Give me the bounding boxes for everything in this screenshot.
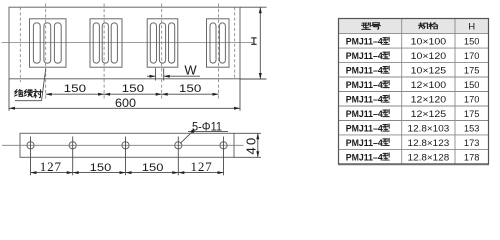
insulation liner dashed line left [19,7,21,82]
svg-text:12×100: 12×100 [411,80,447,90]
dimension 600 [9,79,240,111]
body rectangle 600x H [9,7,240,79]
svg-text:173: 173 [464,138,480,148]
slot group 4 slots [210,23,216,63]
bar rectangle [20,133,234,157]
slot group 4 outer [207,19,230,67]
table header text [362,23,438,30]
svg-text:600: 600 [115,98,136,110]
slot group 3 outer [147,19,178,67]
hole 3 [122,142,129,149]
svg-text:170: 170 [464,51,480,61]
bar centerline [2,144,244,146]
svg-text:PMJ11–4: PMJ11–4 [346,109,383,119]
header label 型号 [362,23,371,30]
svg-text:PMJ11–4: PMJ11–4 [346,124,383,134]
hole 2 [69,142,76,149]
slot group 1 outer [30,19,67,67]
svg-text:175: 175 [464,66,480,76]
svg-text:127: 127 [190,159,212,174]
header label 规格 [419,23,428,29]
svg-text:PMJ11–4: PMJ11–4 [346,80,383,90]
svg-text:150: 150 [464,37,480,47]
dimension 150x3 (top view) [46,93,219,95]
dimension H [240,7,267,79]
svg-text:150: 150 [122,83,144,95]
svg-text:H: H [468,22,475,33]
svg-text:150: 150 [90,162,112,174]
label 绝缘衬 (insulating liner) [15,89,43,97]
svg-text:10×120: 10×120 [411,51,447,61]
hole 5 [220,142,227,149]
hole 4 [175,142,182,149]
table outer border [339,19,489,164]
svg-text:10×100: 10×100 [411,37,447,47]
slot group centerlines (dashed) [46,4,219,100]
svg-text:40: 40 [244,136,259,155]
svg-text:PMJ11–4: PMJ11–4 [346,51,383,61]
table bottom border emphasis [338,164,489,166]
svg-text:10×125: 10×125 [411,66,447,76]
svg-text:150: 150 [142,162,164,174]
dimension W [147,68,200,80]
svg-text:12×120: 12×120 [411,95,447,105]
svg-text:178: 178 [464,152,480,162]
hole 1 [27,142,34,149]
dimensions 127/150/150/127 (bottom view) [31,137,224,176]
table grid [339,19,489,164]
svg-text:PMJ11–4: PMJ11–4 [346,66,383,76]
slot group 2 outer [90,19,122,67]
svg-text:PMJ11–4: PMJ11–4 [346,95,383,105]
svg-text:W: W [184,63,197,78]
svg-text:150: 150 [179,83,201,95]
slot group 1 slots [33,23,40,63]
svg-text:12×125: 12×125 [411,109,447,119]
型 glyphs appended to model names [383,37,390,160]
horizontal centerline [2,41,254,43]
svg-text:175: 175 [464,109,480,119]
svg-text:12.8×123: 12.8×123 [408,138,450,148]
slot group 2 slots [93,23,99,63]
svg-text:PMJ11–4: PMJ11–4 [346,138,383,148]
leader line for 绝缘衬 (underline + leader) [15,69,46,101]
svg-text:150: 150 [464,80,480,90]
svg-text:127: 127 [40,159,62,174]
dimension 40 [234,133,261,157]
svg-text:12.8×103: 12.8×103 [408,124,450,134]
table body text [346,37,480,163]
svg-text:PMJ11–4: PMJ11–4 [346,37,383,47]
insulation liner dashed line right [234,7,236,79]
slot group 3 slots [150,23,156,63]
svg-text:PMJ11–4: PMJ11–4 [346,152,383,162]
svg-text:12.8×128: 12.8×128 [408,152,450,162]
svg-text:153: 153 [464,124,480,134]
svg-text:150: 150 [64,83,86,95]
header background [339,19,489,34]
svg-text:170: 170 [464,95,480,105]
